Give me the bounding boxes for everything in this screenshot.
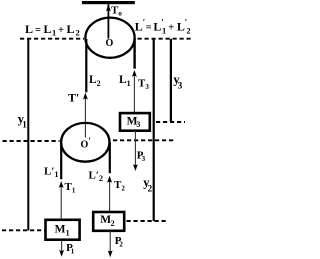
weight arrow P2 shaft xyxy=(109,231,111,255)
tension arrow T0 xyxy=(106,4,111,11)
rope L'2 (right side of pulley O') xyxy=(109,142,111,173)
tension arrow T' head xyxy=(83,93,88,100)
tension arrow T2 head xyxy=(107,176,112,183)
mass M2 box xyxy=(93,212,124,231)
mass M3 box xyxy=(120,113,150,131)
dashed line at M2 level xyxy=(127,220,169,222)
weight arrow P1 head xyxy=(59,250,64,257)
svg-text:O: O xyxy=(106,38,114,49)
pulley O' xyxy=(61,123,109,162)
rope L1 (right side of pulley O) xyxy=(133,38,135,69)
weight arrow P3 shaft xyxy=(134,131,136,169)
rope L'1 (left side of pulley O') xyxy=(60,143,62,179)
dashed reference line top left xyxy=(20,38,84,40)
dashed reference line top right xyxy=(138,38,193,40)
tension arrow T1 head xyxy=(59,181,64,188)
mid dashed reference line left xyxy=(3,140,60,142)
tension arrow T3 shaft xyxy=(133,72,135,113)
dashed line at M1 level xyxy=(2,229,45,231)
mass M1 box xyxy=(46,220,80,240)
spindle wire bar to pulley O center xyxy=(107,4,109,38)
weight arrow P3 head xyxy=(133,164,138,171)
weight arrow P2 head xyxy=(108,250,113,257)
ceiling bar xyxy=(82,1,135,4)
measurement line y1 xyxy=(27,39,29,231)
dashed line at M3 level xyxy=(156,121,185,123)
mid dashed reference line right xyxy=(113,139,175,141)
tension arrow T2 shaft xyxy=(109,178,111,212)
tension arrow T' shaft xyxy=(84,95,86,138)
svg-text:T′: T′ xyxy=(68,91,79,105)
tension arrow T3 head xyxy=(132,70,137,77)
measurement line y2 xyxy=(153,39,155,221)
rope L2 (left side of pulley O) xyxy=(85,39,87,92)
tension arrow T1 shaft xyxy=(60,183,62,220)
measurement line y3 xyxy=(170,39,172,122)
weight arrow P1 shaft xyxy=(61,240,63,255)
pulley O xyxy=(85,18,134,58)
